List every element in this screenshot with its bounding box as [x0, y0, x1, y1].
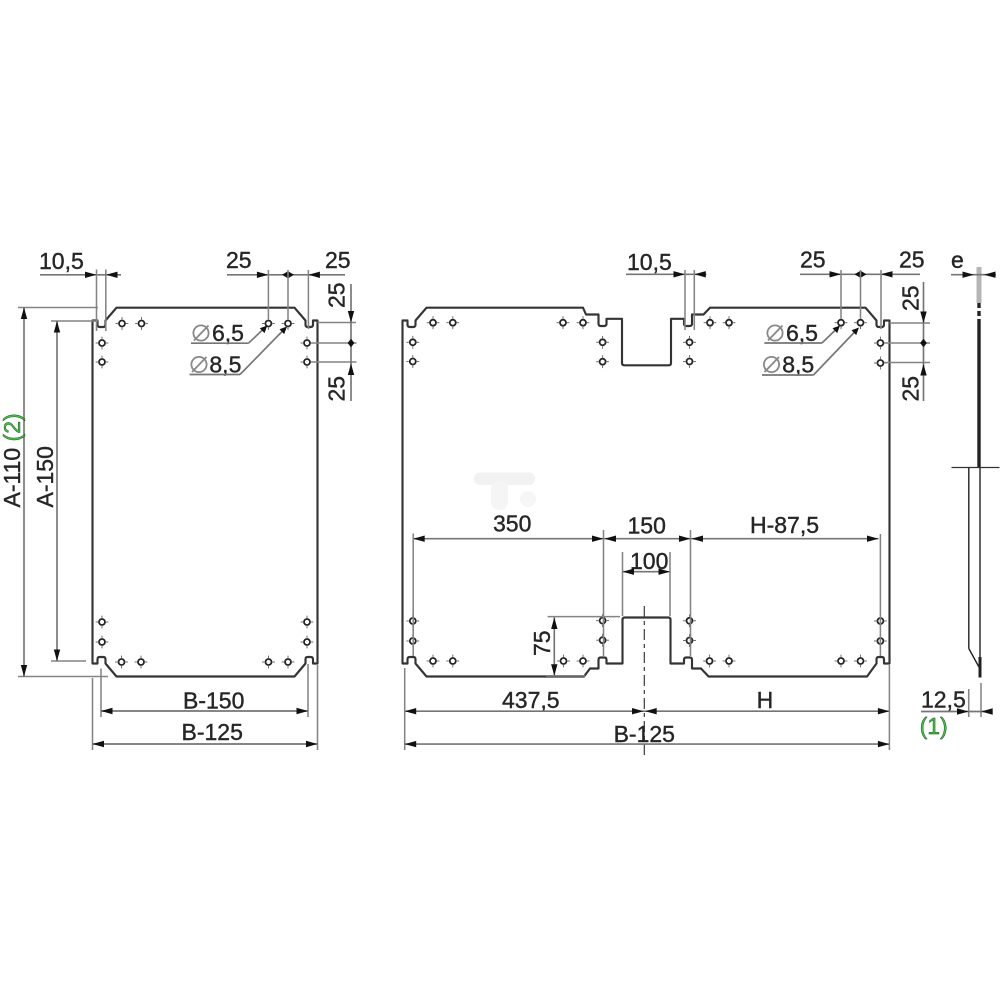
svg-text:10,5: 10,5 [39, 248, 84, 274]
dimension B-150 left plate [101, 664, 308, 717]
svg-text:B-150: B-150 [183, 688, 244, 714]
vertical 25 chain right of right plate [884, 282, 930, 402]
side view plate [952, 267, 1000, 678]
dimension 100 [623, 548, 671, 616]
dimension 75 [529, 617, 620, 676]
dimension A-110 (2) [0, 308, 108, 677]
dimension e [951, 247, 996, 278]
faint watermark [474, 473, 536, 511]
dimension B-125 right plate [405, 665, 890, 750]
right plate holes bottom row [427, 655, 867, 668]
dimension 25 25 top of right plate [800, 247, 925, 330]
svg-text:B-125: B-125 [614, 721, 675, 747]
dimension B-125 left plate [93, 665, 318, 750]
svg-text:10,5: 10,5 [627, 249, 672, 275]
left plate holes right column [301, 337, 314, 649]
dimension 25 25 top of left plate [226, 247, 351, 329]
svg-text:25: 25 [898, 376, 924, 402]
right plate holes left column [406, 336, 419, 647]
diameter label 6,5 left plate [191, 320, 267, 346]
right plate holes top row [427, 316, 867, 329]
svg-text:25: 25 [324, 376, 350, 402]
right plate holes cutout left column [596, 336, 609, 647]
left plate holes bottom row [115, 656, 294, 669]
svg-text:6,5: 6,5 [786, 320, 818, 346]
left plate holes left column [96, 337, 109, 649]
svg-text:8,5: 8,5 [209, 352, 241, 378]
svg-text:A-150: A-150 [32, 446, 58, 507]
svg-text:25: 25 [226, 247, 252, 273]
vertical 25 chain right of left plate [311, 282, 357, 401]
diameter label 8,5 left plate [190, 327, 288, 378]
svg-text:25: 25 [325, 247, 351, 273]
diameter label 6,5 right plate [764, 320, 840, 346]
svg-text:e: e [951, 247, 964, 273]
dimension 12,5 [921, 683, 993, 717]
dimension 437,5 and H [405, 687, 890, 714]
svg-text:150: 150 [628, 513, 666, 539]
right plate outline [403, 308, 890, 677]
svg-text:75: 75 [529, 630, 555, 656]
dimension 10,5 right plate [626, 249, 706, 330]
svg-text:25: 25 [898, 285, 924, 311]
svg-text:H-87,5: H-87,5 [750, 512, 819, 538]
svg-text:8,5: 8,5 [782, 352, 814, 378]
right plate holes right column [874, 337, 887, 648]
svg-text:437,5: 437,5 [502, 687, 560, 713]
dimension 350 150 H-87,5 [413, 511, 880, 657]
svg-text:B-125: B-125 [182, 719, 243, 745]
left plate outline [93, 308, 318, 677]
centerline [643, 606, 645, 757]
diameter label 8,5 right plate [762, 328, 859, 378]
left plate holes top row [116, 317, 295, 330]
dimension 10,5 left plate [39, 248, 121, 331]
dimension A-150 [32, 321, 98, 661]
svg-text:H: H [757, 687, 774, 713]
svg-text:350: 350 [493, 511, 531, 537]
svg-text:25: 25 [899, 247, 925, 273]
svg-text:25: 25 [324, 282, 350, 308]
svg-text:12,5: 12,5 [921, 687, 966, 713]
svg-text:25: 25 [800, 247, 826, 273]
svg-text:(1): (1) [920, 713, 948, 739]
svg-text:6,5: 6,5 [212, 320, 244, 346]
right plate holes cutout right column [683, 336, 696, 647]
svg-text:A-110 (2): A-110 (2) [0, 413, 25, 507]
